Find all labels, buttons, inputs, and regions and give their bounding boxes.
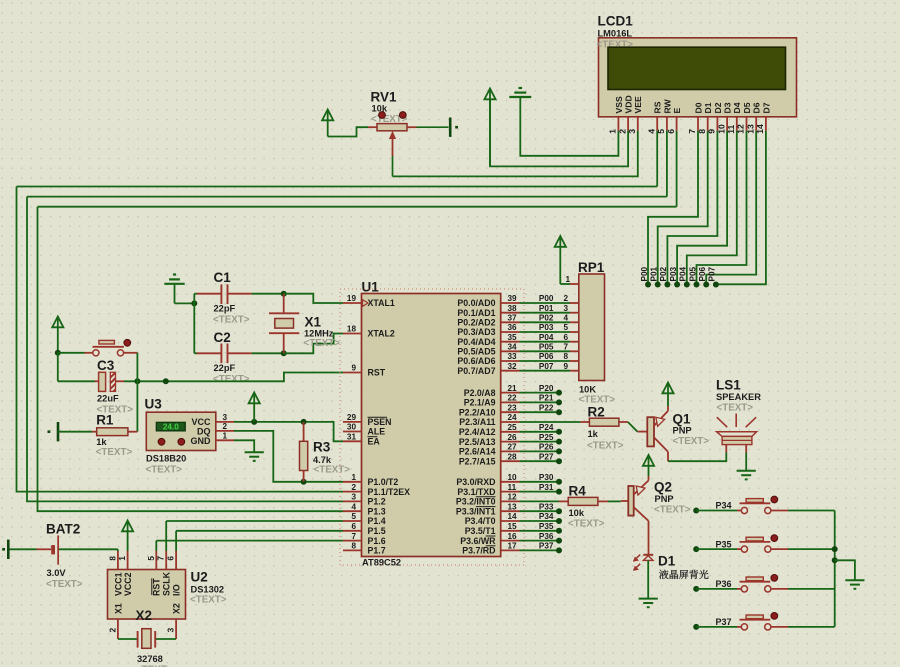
svg-text:35: 35 (508, 333, 518, 342)
svg-text:6: 6 (167, 556, 176, 561)
svg-text:1: 1 (223, 432, 228, 441)
svg-text:P1.2: P1.2 (368, 497, 386, 507)
svg-text:38: 38 (508, 304, 518, 313)
svg-text:P0.5/AD5: P0.5/AD5 (457, 347, 495, 357)
svg-text:12MHz: 12MHz (304, 328, 334, 338)
svg-text:P01: P01 (539, 304, 554, 313)
svg-text:4: 4 (564, 314, 569, 323)
svg-text:P06: P06 (698, 266, 707, 281)
svg-text:P3.3/INT1: P3.3/INT1 (456, 506, 496, 516)
svg-text:31: 31 (347, 433, 357, 442)
svg-text:9: 9 (351, 364, 356, 373)
svg-text:VCC2: VCC2 (123, 572, 133, 596)
svg-text:2: 2 (223, 422, 228, 431)
svg-text:7: 7 (351, 532, 356, 541)
svg-text:17: 17 (508, 542, 518, 551)
svg-text:P04: P04 (539, 333, 554, 342)
svg-text:P1.7: P1.7 (368, 546, 386, 556)
svg-text:30: 30 (347, 423, 357, 432)
svg-text:21: 21 (508, 384, 518, 393)
svg-text:AT89C52: AT89C52 (362, 558, 401, 568)
svg-text:P3.2/INT0: P3.2/INT0 (456, 497, 496, 507)
svg-text:4.7k: 4.7k (313, 455, 332, 465)
svg-text:SCLK: SCLK (162, 571, 172, 596)
svg-text:RST: RST (368, 368, 386, 378)
svg-text:P0.3/AD3: P0.3/AD3 (457, 327, 495, 337)
svg-text:VCC1: VCC1 (113, 572, 123, 596)
svg-text:P0.0/AD0: P0.0/AD0 (457, 298, 495, 308)
svg-text:SPEAKER: SPEAKER (716, 392, 761, 402)
svg-text:P0.1/AD1: P0.1/AD1 (457, 308, 495, 318)
svg-text:X2: X2 (172, 603, 182, 614)
svg-text:P2.2/A10: P2.2/A10 (459, 407, 496, 417)
svg-text:3.0V: 3.0V (47, 568, 67, 578)
svg-text:P22: P22 (539, 403, 554, 412)
svg-text:P0.2/AD2: P0.2/AD2 (457, 318, 495, 328)
svg-text:<TEXT>: <TEXT> (673, 436, 710, 447)
svg-text:DQ: DQ (197, 426, 211, 436)
svg-text:4: 4 (646, 129, 656, 134)
svg-text:8: 8 (108, 556, 117, 561)
svg-text:P37: P37 (715, 617, 731, 627)
svg-text:28: 28 (508, 452, 518, 461)
svg-text:6: 6 (564, 333, 569, 342)
svg-text:5: 5 (564, 323, 569, 332)
svg-text:<TEXT>: <TEXT> (304, 338, 341, 349)
svg-text:1k: 1k (96, 437, 107, 447)
svg-text:22pF: 22pF (214, 304, 236, 314)
svg-text:LM016L: LM016L (598, 29, 633, 39)
svg-text:X1: X1 (305, 315, 322, 330)
svg-text:P36: P36 (715, 579, 731, 589)
svg-text:P3.0/RXD: P3.0/RXD (456, 477, 495, 487)
svg-text:19: 19 (347, 294, 357, 303)
svg-text:P02: P02 (659, 266, 668, 281)
svg-text:32: 32 (508, 362, 518, 371)
svg-text:LCD1: LCD1 (598, 14, 634, 29)
svg-text:LS1: LS1 (716, 378, 741, 393)
svg-text:R3: R3 (313, 440, 331, 455)
svg-text:VEE: VEE (633, 96, 643, 113)
svg-text:VDD: VDD (624, 95, 634, 113)
svg-text:RST: RST (152, 578, 162, 596)
svg-text:P33: P33 (539, 502, 554, 511)
svg-text:P2.4/A12: P2.4/A12 (459, 427, 496, 437)
svg-text:15: 15 (508, 522, 518, 531)
svg-text:P2.0/A8: P2.0/A8 (464, 388, 496, 398)
svg-text:3: 3 (223, 413, 228, 422)
svg-text:29: 29 (347, 413, 357, 422)
svg-text:<TEXT>: <TEXT> (190, 595, 227, 606)
svg-text:DS18B20: DS18B20 (146, 454, 186, 464)
svg-text:P26: P26 (539, 443, 554, 452)
svg-text:P1.1/T2EX: P1.1/T2EX (368, 487, 411, 497)
svg-text:X1: X1 (113, 603, 123, 614)
svg-text:11: 11 (726, 124, 736, 133)
svg-text:32768: 32768 (137, 654, 163, 664)
svg-text:1k: 1k (588, 429, 599, 439)
svg-text:P2.7/A15: P2.7/A15 (459, 456, 496, 466)
svg-text:RW: RW (662, 98, 672, 113)
svg-text:16: 16 (508, 532, 518, 541)
svg-text:1: 1 (566, 275, 571, 284)
svg-text:14: 14 (508, 512, 518, 521)
svg-text:GND: GND (191, 436, 212, 446)
svg-text:RP1: RP1 (578, 260, 605, 275)
svg-text:EA: EA (368, 437, 381, 447)
svg-text:2: 2 (617, 129, 627, 134)
svg-text:PNP: PNP (655, 494, 674, 504)
svg-text:<TEXT>: <TEXT> (96, 447, 133, 458)
svg-text:<TEXT>: <TEXT> (213, 374, 250, 385)
svg-text:<TEXT>: <TEXT> (717, 403, 754, 414)
svg-text:<TEXT>: <TEXT> (46, 579, 83, 590)
svg-text:D1: D1 (658, 554, 676, 569)
svg-text:P2.6/A14: P2.6/A14 (459, 447, 496, 457)
svg-text:5: 5 (351, 512, 356, 521)
svg-text:P0.4/AD4: P0.4/AD4 (457, 337, 495, 347)
svg-text:24: 24 (508, 413, 518, 422)
svg-text:P07: P07 (708, 266, 717, 281)
svg-text:39: 39 (508, 294, 518, 303)
svg-text:P36: P36 (539, 532, 554, 541)
svg-text:P1.0/T2: P1.0/T2 (368, 477, 399, 487)
svg-text:P00: P00 (640, 266, 649, 281)
svg-text:9: 9 (707, 129, 717, 134)
svg-text:E: E (672, 108, 682, 114)
svg-text:2: 2 (351, 483, 356, 492)
svg-text:5: 5 (147, 556, 156, 561)
svg-text:4: 4 (351, 502, 356, 511)
svg-text:1: 1 (608, 129, 618, 134)
svg-text:24.0: 24.0 (163, 423, 179, 432)
svg-text:ALE: ALE (368, 427, 386, 437)
svg-text:9: 9 (564, 362, 569, 371)
svg-text:<TEXT>: <TEXT> (654, 505, 691, 516)
svg-text:3: 3 (627, 129, 637, 134)
svg-text:P24: P24 (539, 423, 554, 432)
svg-text:P03: P03 (539, 323, 554, 332)
svg-text:27: 27 (508, 443, 518, 452)
svg-text:BAT2: BAT2 (46, 522, 80, 537)
svg-text:37: 37 (508, 314, 518, 323)
svg-text:P27: P27 (539, 452, 554, 461)
svg-text:C3: C3 (97, 358, 115, 373)
svg-text:P20: P20 (539, 384, 554, 393)
svg-text:P37: P37 (539, 542, 554, 551)
svg-text:Q1: Q1 (673, 412, 692, 427)
svg-text:DS1302: DS1302 (191, 585, 225, 595)
svg-text:26: 26 (508, 433, 518, 442)
svg-text:D3: D3 (723, 102, 733, 113)
svg-text:D1: D1 (703, 102, 713, 113)
svg-text:<TEXT>: <TEXT> (314, 465, 351, 476)
svg-text:13: 13 (745, 124, 755, 134)
svg-text:D6: D6 (752, 102, 762, 113)
svg-text:8: 8 (564, 352, 569, 361)
svg-text:2: 2 (108, 627, 117, 632)
svg-text:D2: D2 (713, 102, 723, 113)
svg-text:10: 10 (508, 473, 518, 482)
svg-text:P01: P01 (650, 266, 659, 281)
svg-text:3: 3 (564, 304, 569, 313)
svg-text:P3.7/RD: P3.7/RD (462, 546, 495, 556)
svg-text:33: 33 (508, 352, 518, 361)
svg-text:R1: R1 (96, 413, 114, 428)
svg-text:D4: D4 (732, 102, 742, 113)
svg-text:P1.6: P1.6 (368, 536, 386, 546)
svg-text:U1: U1 (362, 280, 380, 295)
svg-text:VSS: VSS (614, 96, 624, 113)
svg-text:U2: U2 (191, 570, 208, 585)
svg-text:36: 36 (508, 323, 518, 332)
svg-text:<TEXT>: <TEXT> (146, 465, 183, 476)
svg-text:P34: P34 (715, 501, 731, 511)
svg-text:6: 6 (351, 522, 356, 531)
svg-text:P3.6/WR: P3.6/WR (460, 536, 496, 546)
svg-text:10k: 10k (569, 508, 585, 518)
svg-text:12: 12 (508, 493, 518, 502)
svg-text:P1.5: P1.5 (368, 526, 386, 536)
svg-text:6: 6 (666, 129, 676, 134)
svg-text:P3.4/T0: P3.4/T0 (465, 516, 496, 526)
svg-text:2: 2 (564, 294, 569, 303)
svg-text:I/O: I/O (172, 584, 182, 596)
svg-text:<TEXT>: <TEXT> (213, 315, 250, 326)
svg-text:P21: P21 (539, 394, 554, 403)
svg-text:7: 7 (687, 129, 697, 134)
svg-text:D0: D0 (693, 102, 703, 113)
svg-text:P3.1/TXD: P3.1/TXD (457, 487, 495, 497)
svg-text:P0.7/AD7: P0.7/AD7 (457, 366, 495, 376)
svg-text:13: 13 (508, 502, 518, 511)
svg-text:34: 34 (508, 343, 518, 352)
svg-text:P3.5/T1: P3.5/T1 (465, 526, 496, 536)
svg-text:RS: RS (653, 101, 663, 113)
svg-text:11: 11 (508, 483, 517, 492)
svg-text:X2: X2 (136, 608, 153, 623)
svg-text:P2.3/A11: P2.3/A11 (459, 417, 495, 427)
svg-text:8: 8 (697, 129, 707, 134)
svg-text:XTAL1: XTAL1 (368, 298, 395, 308)
svg-text:P35: P35 (539, 522, 554, 531)
svg-text:7: 7 (157, 556, 166, 561)
svg-text:5: 5 (656, 129, 666, 134)
svg-text:1: 1 (351, 473, 356, 482)
svg-text:P00: P00 (539, 294, 554, 303)
svg-text:P2.1/A9: P2.1/A9 (464, 398, 496, 408)
svg-text:P1.4: P1.4 (368, 516, 386, 526)
svg-text:Q2: Q2 (654, 480, 672, 495)
svg-text:18: 18 (347, 325, 357, 334)
svg-text:P05: P05 (688, 266, 697, 281)
svg-text:P2.5/A13: P2.5/A13 (459, 437, 496, 447)
svg-text:XTAL2: XTAL2 (368, 329, 395, 339)
svg-text:P07: P07 (539, 362, 554, 371)
svg-text:P34: P34 (539, 512, 554, 521)
svg-text:12: 12 (736, 124, 746, 134)
svg-text:14: 14 (755, 124, 765, 134)
svg-text:3: 3 (351, 493, 356, 502)
svg-text:P31: P31 (539, 483, 554, 492)
svg-text:U3: U3 (145, 397, 163, 412)
svg-text:P04: P04 (679, 266, 688, 281)
svg-text:P06: P06 (539, 352, 554, 361)
svg-text:1: 1 (118, 556, 127, 561)
svg-text:P0.6/AD6: P0.6/AD6 (457, 356, 495, 366)
svg-text:22: 22 (508, 394, 518, 403)
svg-text:P03: P03 (669, 266, 678, 281)
svg-text:P1.3: P1.3 (368, 506, 386, 516)
svg-text:3: 3 (167, 627, 176, 632)
svg-text:7: 7 (564, 343, 569, 352)
svg-text:R4: R4 (569, 484, 587, 499)
svg-text:P05: P05 (539, 343, 554, 352)
svg-text:<TEXT>: <TEXT> (587, 441, 624, 452)
svg-text:10: 10 (716, 124, 726, 134)
svg-text:25: 25 (508, 423, 518, 432)
svg-text:PNP: PNP (673, 426, 692, 436)
svg-text:22uF: 22uF (97, 393, 119, 403)
svg-text:23: 23 (508, 403, 518, 412)
svg-text:10K: 10K (579, 385, 596, 395)
svg-text:PSEN: PSEN (368, 417, 392, 427)
svg-text:P02: P02 (539, 314, 554, 323)
svg-text:D7: D7 (761, 102, 771, 113)
svg-text:22pF: 22pF (214, 363, 236, 373)
svg-text:P35: P35 (715, 539, 731, 549)
svg-text:D5: D5 (742, 102, 752, 113)
svg-text:8: 8 (351, 542, 356, 551)
svg-text:C1: C1 (214, 270, 232, 285)
svg-text:<TEXT>: <TEXT> (568, 519, 605, 530)
svg-text:R2: R2 (588, 405, 605, 420)
svg-text:RV1: RV1 (371, 90, 398, 105)
svg-text:P25: P25 (539, 433, 554, 442)
svg-text:C2: C2 (214, 330, 231, 345)
svg-text:P30: P30 (539, 473, 554, 482)
